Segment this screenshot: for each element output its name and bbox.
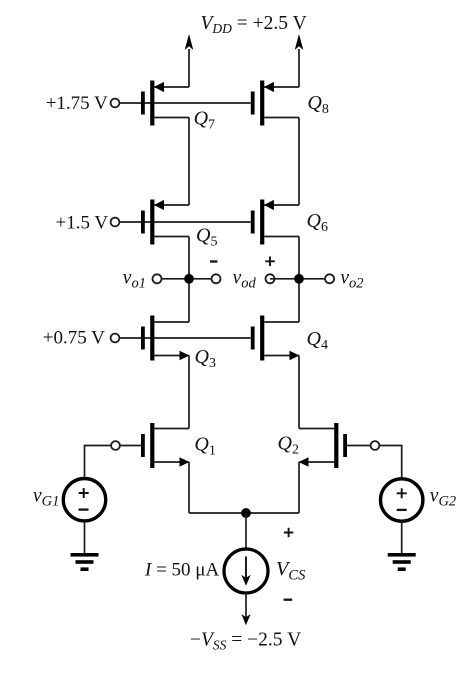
wire current source to VSS arrow xyxy=(245,593,247,618)
svg-text:VCS: VCS xyxy=(276,558,306,584)
wire Q2 source to tail rail xyxy=(298,462,300,513)
transistor Q6 xyxy=(251,200,299,245)
ground left xyxy=(71,553,99,571)
power VDD arrow left xyxy=(188,49,190,87)
terminal vo2 circle xyxy=(325,274,334,283)
wire vo1 to minus terminal xyxy=(157,278,216,280)
svg-text:Q2: Q2 xyxy=(278,433,299,458)
terminal +1.75V input circle xyxy=(111,99,120,108)
wire vG1 to Q1 gate xyxy=(85,446,142,479)
node tail junction dot xyxy=(241,508,251,518)
svg-text:Q5: Q5 xyxy=(196,225,217,250)
transistor Q5 xyxy=(141,200,189,245)
svg-text:vG2: vG2 xyxy=(430,486,456,510)
power VDD arrow right xyxy=(298,49,300,87)
wire Q1 source to tail rail xyxy=(188,462,190,513)
node B junction dot right output xyxy=(294,274,304,284)
svg-text:vo1: vo1 xyxy=(123,268,146,292)
transistor Q2 xyxy=(299,423,347,468)
transistor Q7 xyxy=(141,81,189,126)
sign minus vod xyxy=(210,260,218,262)
wire tail to current source xyxy=(245,513,247,549)
wire vG2 to Q2 gate xyxy=(347,446,402,479)
terminal vod minus circle xyxy=(212,274,221,283)
svg-text:Q3: Q3 xyxy=(195,346,216,371)
terminal Q2 gate circle xyxy=(371,441,380,450)
svg-text:Q6: Q6 xyxy=(307,210,328,235)
wire Q8 drain to Q6 source xyxy=(298,118,300,206)
transistor Q3 xyxy=(141,316,189,361)
wire vG1 to ground xyxy=(84,521,86,553)
svg-text:Q7: Q7 xyxy=(194,108,215,133)
wire +1.5V bias line to Q5/Q6 gates xyxy=(119,221,250,223)
svg-text:I = 50 μA: I = 50 μA xyxy=(144,560,219,581)
terminal +1.5V input circle xyxy=(111,218,120,227)
wire +1.75V bias line to Q7/Q8 gates xyxy=(119,102,250,104)
source vG1 xyxy=(63,479,105,521)
svg-text:vo2: vo2 xyxy=(340,268,363,292)
transistor Q4 xyxy=(251,316,299,361)
wire plus terminal to vo2 xyxy=(270,278,330,280)
svg-text:vG1: vG1 xyxy=(33,486,59,510)
svg-text:VDD = +2.5 V: VDD = +2.5 V xyxy=(201,13,307,36)
wire tail rail xyxy=(189,512,299,514)
wire Q4 source to Q2 drain xyxy=(298,356,300,429)
wire Q7 drain to Q5 source xyxy=(188,118,190,206)
terminal Q1 gate circle xyxy=(111,441,120,450)
node A junction dot left output xyxy=(184,274,194,284)
svg-text:vod: vod xyxy=(233,268,257,292)
sign plus VCS xyxy=(284,528,293,537)
svg-text:−VSS = −2.5 V: −VSS = −2.5 V xyxy=(190,630,301,653)
sign minus VCS xyxy=(284,599,293,601)
source vG2 xyxy=(381,479,423,521)
wire +0.75V bias line to Q3/Q4 gates xyxy=(119,337,250,339)
svg-text:+0.75 V: +0.75 V xyxy=(43,328,105,349)
power VSS arrow xyxy=(241,614,250,625)
wire Q6 drain to output node vo2 xyxy=(298,237,300,323)
svg-text:+1.5 V: +1.5 V xyxy=(56,213,109,234)
terminal vod plus circle xyxy=(266,274,275,283)
terminal vo1 circle xyxy=(153,274,162,283)
svg-text:Q8: Q8 xyxy=(307,92,328,117)
wire vG2 to ground xyxy=(401,521,403,553)
transistor Q1 xyxy=(141,423,189,468)
current source VCS xyxy=(224,549,268,593)
svg-text:+1.75 V: +1.75 V xyxy=(46,93,108,114)
terminal +0.75V input circle xyxy=(111,334,120,343)
transistor Q8 xyxy=(251,81,299,126)
wire Q5 drain to output node vo1 xyxy=(188,237,190,323)
sign plus vod xyxy=(265,257,275,267)
svg-text:Q1: Q1 xyxy=(194,434,215,459)
svg-text:Q4: Q4 xyxy=(307,328,328,353)
wire Q3 source to Q1 drain xyxy=(188,356,190,429)
ground right xyxy=(388,553,416,571)
